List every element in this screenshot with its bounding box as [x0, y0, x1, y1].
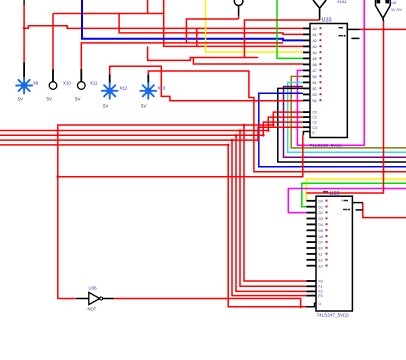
U35 pin stub row4 — [307, 218, 317, 220]
wire U33 right pin to edge — [360, 28, 406, 30]
op-amp U33 body — [310, 24, 347, 138]
wire bus line B — [0, 130, 268, 132]
svg-text:F3: F3 — [319, 294, 323, 298]
wire black from U33 pin12 to right edge — [278, 88, 406, 162]
svg-text:5V: 5V — [47, 97, 52, 102]
wire circle-lamp net left — [186, 19, 238, 43]
svg-text:5V: 5V — [103, 104, 108, 109]
svg-text:X12: X12 — [120, 86, 128, 91]
junction — [267, 129, 270, 132]
wire yellow riser to U33 pin5 — [206, 0, 304, 52]
svg-text:5V 5%: 5V 5% — [391, 8, 403, 12]
svg-text:D6: D6 — [319, 235, 323, 239]
U35 pin stub row5 — [307, 223, 317, 225]
junction bus A inverter tap — [57, 175, 60, 178]
wire U35 right pin step — [363, 203, 406, 218]
wire bus line E — [0, 144, 228, 146]
svg-text:U36: U36 — [89, 285, 98, 290]
U36 input lead — [76, 298, 89, 300]
U33 internal mark — [339, 27, 344, 28]
buzzer hatch left — [377, 0, 381, 3]
wire bus line C — [0, 134, 263, 136]
wire top stub riser x147.6 — [147, 0, 149, 14]
svg-text:D5: D5 — [319, 229, 323, 233]
wire dropper to U35 pin17 — [236, 135, 307, 291]
svg-text:X1A1: X1A1 — [337, 0, 348, 4]
svg-text:C3: C3 — [313, 126, 317, 130]
svg-text:D7: D7 — [319, 241, 323, 245]
junction — [272, 124, 275, 127]
wire lamp X12 net to U33 pin13 — [110, 66, 303, 100]
svg-text:E0: E0 — [319, 247, 323, 251]
U33 pin stub row16 — [303, 121, 310, 123]
wire blue from U33 pin13 to right edge — [259, 93, 406, 167]
U35 pin stub row15 — [307, 290, 317, 292]
wire lamp X10 riser — [52, 14, 54, 70]
wire riser to U33 pin16 — [263, 122, 303, 135]
lamp X11 black lead — [80, 69, 82, 82]
svg-text:E3: E3 — [319, 264, 323, 268]
wire circle lamp lead red — [238, 16, 240, 20]
lamp X13 (lit) — [140, 83, 156, 99]
svg-text:D4: D4 — [319, 223, 323, 227]
svg-text:F0: F0 — [319, 280, 323, 284]
junction — [243, 124, 246, 127]
wire branch to U33 pin2 — [119, 14, 303, 35]
junction — [235, 134, 238, 137]
U35 pin stub row16 — [307, 295, 317, 297]
wire riser to U33 pin14 — [273, 112, 303, 125]
wire magenta from U33 pin8 down and right to vertical riser — [297, 0, 364, 145]
U35 pin stub row3 — [307, 212, 317, 214]
circle lamp at top edge — [234, 0, 243, 6]
wire riser x163.7 to U33 pin4 — [164, 0, 303, 46]
wire yellow to U35 pin1 — [306, 179, 406, 201]
U35 pin stub row14 — [307, 285, 317, 287]
svg-text:X9: X9 — [33, 81, 39, 86]
U35 pin stub row11 — [307, 259, 317, 261]
svg-text:5V: 5V — [75, 97, 80, 102]
wire green to U35 pin2 — [302, 183, 406, 206]
wire purple from U33 pin11 to right edge — [284, 87, 406, 158]
svg-text:U33: U33 — [322, 18, 332, 24]
svg-text:74LS247_5V(1): 74LS247_5V(1) — [317, 313, 350, 318]
buzzer X15 body — [376, 0, 391, 18]
U35 pin stub row2 — [307, 206, 317, 208]
svg-text:D3: D3 — [319, 217, 323, 221]
U33 pin stub row5 — [303, 51, 310, 53]
svg-text:C2: C2 — [313, 121, 317, 125]
wire horizontal net y13.5 — [53, 13, 164, 15]
junction — [382, 28, 385, 31]
wire magenta to U35 pin3 — [288, 189, 406, 213]
svg-text:X13: X13 — [158, 86, 166, 91]
svg-text:F1: F1 — [319, 285, 323, 289]
U33 pin stub row12 — [303, 93, 310, 95]
svg-text:A6: A6 — [313, 63, 317, 67]
wire U36 output to U35 — [114, 299, 300, 307]
svg-text:G: G — [319, 302, 322, 306]
svg-text:A5: A5 — [313, 57, 317, 61]
wire bus line D — [0, 139, 258, 141]
U35 internal mark2 — [343, 209, 348, 210]
U33 right pin stub — [347, 28, 359, 30]
U36 bubble — [100, 297, 103, 300]
wire tap to U33 bent pin — [58, 135, 303, 177]
Y component at top — [313, 0, 320, 8]
svg-text:B0: B0 — [313, 75, 317, 79]
circle lamp lead — [238, 6, 240, 16]
U35 pin stub row8 — [307, 241, 317, 243]
svg-text:E2: E2 — [319, 258, 323, 262]
U33 pin stub row6 — [303, 57, 310, 59]
wire dropper to U35 pin15 — [244, 125, 307, 281]
svg-text:5V: 5V — [141, 104, 146, 109]
svg-text:E1: E1 — [319, 253, 323, 257]
svg-text:X10: X10 — [63, 81, 71, 86]
wire dropper to U35 pin16 — [240, 131, 307, 287]
svg-text:X15: X15 — [390, 1, 397, 5]
U33 pin stub row7 — [303, 63, 310, 65]
junction — [23, 27, 26, 30]
U33 pin stub row10 — [303, 81, 310, 83]
U33 unconnected pin dash — [351, 37, 359, 39]
U35 right pin stub — [352, 202, 362, 204]
lamp X10 (unlit) — [49, 82, 57, 90]
wire green riser to U33 pin6 — [277, 0, 303, 58]
Y component lead — [319, 8, 321, 20]
svg-text:NOT: NOT — [88, 307, 97, 312]
svg-text:B1: B1 — [313, 81, 317, 85]
lamp X9 black lead — [23, 62, 25, 78]
svg-text:B4: B4 — [313, 99, 317, 103]
U33 pin stub row9 — [303, 75, 310, 77]
svg-text:A2: A2 — [313, 39, 317, 43]
wire lamp X13 net long route — [148, 71, 406, 172]
U35 unconnected pin dash — [356, 209, 363, 211]
U35 pin stub row1 — [307, 200, 317, 202]
U33 pin stub row15 — [303, 116, 310, 118]
svg-text:A7: A7 — [313, 69, 317, 73]
svg-text:D0: D0 — [319, 199, 323, 203]
U35 internal mark — [344, 200, 349, 201]
lamp X13 black lead — [147, 75, 149, 84]
wire stepped segment y58.7-60.4 — [148, 46, 258, 60]
wire stub top edge X9 — [23, 0, 25, 5]
wire cyan from U33 pin10 to right edge — [288, 82, 406, 152]
U35 bent pin — [306, 303, 316, 307]
U33 pin stub row4 — [303, 45, 310, 47]
U33 internal mark2 — [339, 35, 344, 36]
U35 pin stub row10 — [307, 253, 317, 255]
U33 pin stub row8 — [303, 69, 310, 71]
wire blue bus to U33 pin3 — [82, 0, 303, 40]
svg-text:A1: A1 — [313, 33, 317, 37]
U33 pin stub row3 — [303, 39, 310, 41]
wire dropper to U35 bent pin rail — [228, 145, 306, 307]
not-gate U36 triangle — [89, 292, 100, 304]
wire riser to U33 pin15 — [268, 117, 303, 130]
wire riser to U33 pin17 — [258, 127, 303, 140]
wire to U33 pin7 — [193, 58, 303, 65]
junction — [231, 139, 234, 142]
junction — [299, 306, 302, 309]
wire dropper to U35 pin18 — [232, 140, 307, 296]
U36 output lead — [103, 298, 115, 300]
buzzer hatch right — [385, 0, 389, 3]
svg-text:A3: A3 — [313, 45, 317, 49]
svg-text:X11: X11 — [90, 81, 98, 86]
U33 pin stub row13 — [303, 99, 310, 101]
lamp X9 (lit) — [16, 78, 32, 94]
svg-text:A4: A4 — [313, 51, 317, 55]
U35 pin stub row6 — [307, 229, 317, 231]
U33 pin stub row11 — [303, 87, 310, 89]
op-amp U35 body — [316, 196, 352, 311]
svg-text:A0: A0 — [313, 27, 317, 31]
wire red net to buzzer vertical — [306, 20, 383, 193]
U33 bent pin — [303, 132, 310, 136]
lamp X12 (lit) — [102, 83, 118, 99]
U33 pin stub row14 — [303, 111, 310, 113]
svg-text:B2: B2 — [313, 87, 317, 91]
wire olive from U33 pin9 to right edge — [291, 76, 406, 147]
U35 pin stub row13 — [307, 280, 317, 282]
lamp X12 black lead — [109, 75, 111, 84]
U35 pin stub row7 — [307, 235, 317, 237]
wire lamp X9 net to U33 pin1 — [24, 26, 303, 29]
buzzer lead — [382, 18, 384, 21]
junction — [262, 134, 265, 137]
wire Y-component net to U33 pin7 — [244, 20, 319, 58]
svg-text:74LS245_5V(1): 74LS245_5V(1) — [310, 143, 343, 148]
lamp X11 (unlit) — [78, 82, 86, 90]
wire lamp X11 to bus — [81, 43, 283, 69]
svg-text:U35: U35 — [330, 191, 340, 197]
U35 pin stub row9 — [307, 247, 317, 249]
junction — [239, 129, 242, 132]
junction — [227, 144, 230, 147]
wire bus line A — [58, 125, 273, 299]
svg-text:D2: D2 — [319, 211, 323, 215]
svg-text:D1: D1 — [319, 205, 323, 209]
wire tie vertical x196.8 — [196, 28, 198, 46]
wire lamp X9 lead — [23, 5, 25, 62]
lamp X10 black lead — [52, 69, 54, 81]
svg-text:B3: B3 — [313, 93, 317, 97]
U33 pin stub row1 — [303, 27, 310, 29]
svg-text:C1: C1 — [313, 116, 317, 120]
svg-text:C0: C0 — [313, 111, 317, 115]
U33 pin stub row2 — [303, 33, 310, 35]
U35 pin stub row12 — [307, 265, 317, 267]
junction — [257, 139, 260, 142]
junction — [382, 171, 385, 174]
svg-text:5V: 5V — [18, 97, 23, 102]
U33 pin stub row17 — [303, 126, 310, 128]
